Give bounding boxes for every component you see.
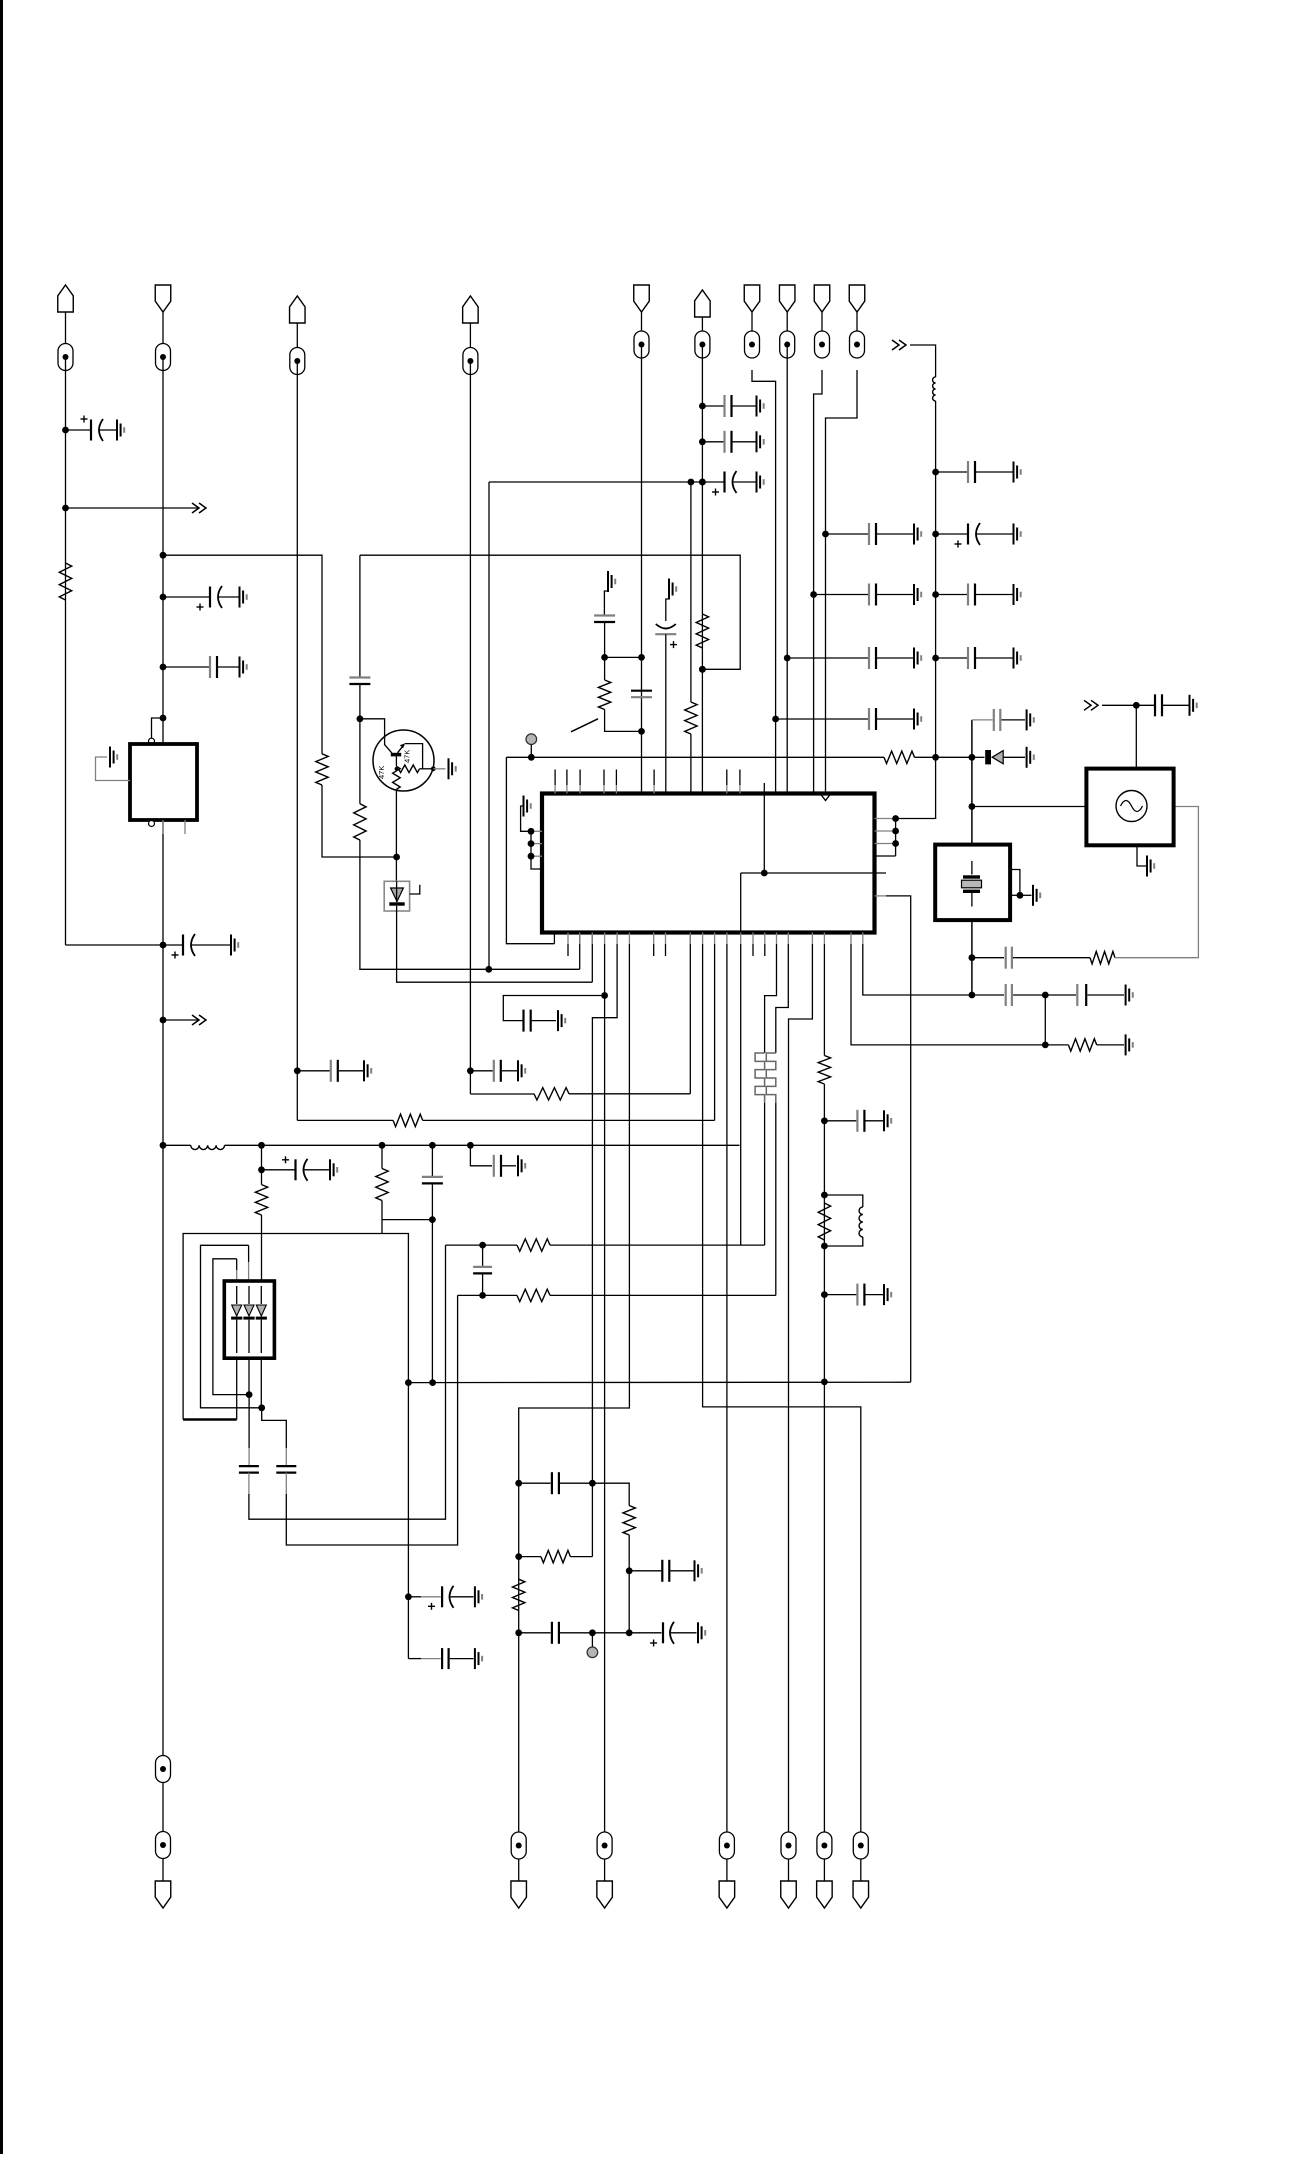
svg-text:47K: 47K: [377, 766, 386, 779]
svg-text:47K: 47K: [403, 750, 412, 763]
